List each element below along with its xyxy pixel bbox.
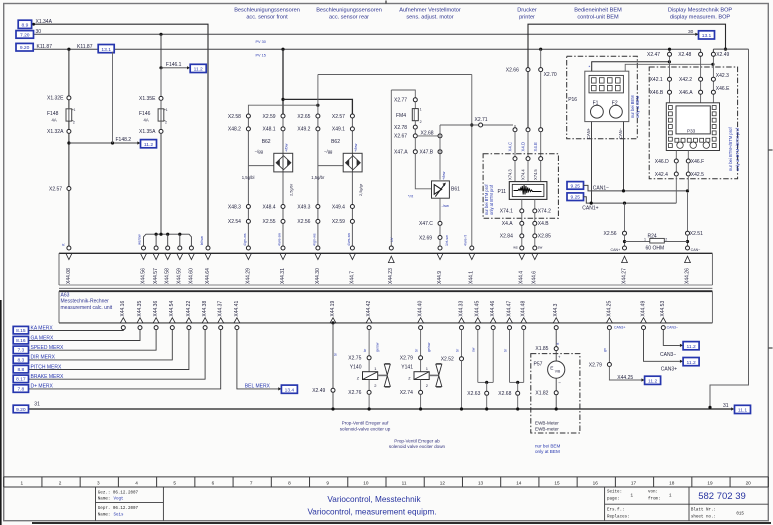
connector arrow X44.31: [280, 254, 286, 260]
svg-text:1,5g/bl: 1,5g/bl: [242, 175, 255, 180]
pin X74.4 pin: [526, 157, 530, 161]
pin X47.C: [438, 221, 442, 225]
svg-text:30: 30: [36, 29, 42, 35]
svg-text:X2.49: X2.49: [716, 52, 729, 58]
wire CAN3- wire: [663, 330, 680, 346]
svg-text:von:: von:: [648, 490, 658, 494]
pin X44.25 bottom: [607, 326, 611, 330]
display BOP dash-dot box: [649, 67, 737, 179]
sheet-ref box 9.20 left: [16, 43, 33, 51]
svg-text:20: 20: [746, 481, 752, 486]
svg-text:CAN+: CAN+: [611, 248, 621, 252]
wire X2.52 col a: [461, 330, 463, 357]
valve symbol Y141: [429, 374, 439, 376]
svg-text:−: −: [558, 381, 561, 386]
junction CAN1- BOP j: [686, 189, 689, 192]
wire CAN- wire: [623, 122, 625, 191]
pin X48.4: [281, 205, 285, 209]
wire F146 col e: [160, 133, 162, 234]
svg-text:X44.7: X44.7: [349, 271, 355, 284]
svg-text:X42.1: X42.1: [650, 77, 663, 83]
svg-text:13.1: 13.1: [702, 33, 712, 39]
wire X2.65 riser: [317, 75, 319, 115]
pin X44.37 bottom: [219, 326, 223, 330]
svg-text:CAN1−: CAN1−: [593, 186, 609, 192]
svg-text:X44.42: X44.42: [366, 301, 372, 317]
svg-text:CAN−: CAN−: [618, 127, 623, 139]
svg-text:X42.5: X42.5: [691, 172, 704, 178]
svg-text:control-unit BEM: control-unit BEM: [577, 15, 619, 21]
svg-text:sens. adjust. motor: sens. adjust. motor: [406, 15, 453, 21]
wire X4.E wire: [540, 132, 542, 157]
connector arrow X44.59: [177, 254, 183, 260]
svg-text:X74.5: X74.5: [533, 169, 538, 180]
svg-text:X2.69: X2.69: [419, 235, 432, 241]
svg-text:X44.19: X44.19: [330, 301, 336, 317]
connector arrow X44.33: [459, 318, 465, 323]
connector arrow X44.25: [607, 318, 613, 323]
signal wire KA MERX: [29, 330, 124, 331]
resistor R24: [650, 238, 665, 243]
junction meter gnd: [555, 407, 558, 410]
pin X42.3: [711, 77, 715, 81]
wire X2.49 drop: [712, 49, 714, 54]
acc sensor rear B62 body: [343, 153, 362, 172]
svg-text:X44.1: X44.1: [469, 271, 475, 284]
svg-text:X44.57: X44.57: [153, 268, 159, 284]
wire front supply: [282, 49, 284, 114]
svg-text:CAN3−: CAN3−: [660, 352, 676, 358]
pin X2.57 left: [67, 187, 71, 191]
svg-text:CAN+: CAN+: [586, 127, 591, 139]
sheet-ref box 8.3 box: [13, 356, 28, 364]
junction X2.52 gnd: [460, 407, 463, 410]
wire fm4 b: [414, 121, 416, 126]
svg-text:B62: B62: [262, 139, 271, 145]
signal wire SPEED MERX: [29, 330, 157, 351]
control unit P16 body: [585, 71, 629, 121]
signal wire BRAKE MERX: [29, 330, 206, 380]
solenoid valve Y140 coil: [363, 372, 378, 380]
wire X2.51 col: [687, 193, 689, 231]
wire BEM to X42.1 feed: [592, 62, 670, 71]
svg-text:X2.63: X2.63: [467, 391, 480, 397]
svg-text:X2.68: X2.68: [498, 391, 511, 397]
pin X44.53 bottom: [661, 326, 665, 330]
wire pair pairA: [477, 330, 479, 383]
pin X44.9 top: [438, 246, 442, 250]
pin X2.84: [520, 234, 524, 238]
pin X44.33 bottom: [460, 326, 464, 330]
svg-text:8: 8: [288, 481, 291, 486]
sheet-ref box 9.20 bottom: [13, 405, 28, 413]
arrow into 11.1: [731, 407, 734, 410]
svg-text:X46.A: X46.A: [679, 90, 693, 96]
svg-text:3: 3: [97, 481, 100, 486]
svg-text:4/gn-ws: 4/gn-ws: [313, 233, 317, 246]
svg-text:X47.C: X47.C: [419, 221, 433, 227]
svg-text:9.25: 9.25: [570, 183, 580, 189]
sheet-ref box 11.2 f148: [141, 140, 157, 148]
svg-text:sw: sw: [538, 245, 543, 249]
wire X74.5 wire: [540, 161, 542, 182]
svg-text:X44.25: X44.25: [606, 301, 612, 317]
sheet-ref box 11.2 f146: [190, 64, 206, 72]
signal wire DIR MERX: [29, 330, 173, 360]
acc sensor rear wires: [317, 116, 319, 246]
wire X2.85 wire: [534, 225, 536, 234]
pin X44.30 top: [316, 246, 320, 250]
pin X44.08 top: [67, 246, 71, 250]
svg-text:4/gn-ws: 4/gn-ws: [243, 233, 247, 246]
pin X44.31 top: [281, 246, 285, 250]
wire motor top bend: [391, 90, 415, 98]
svg-text:X44.33: X44.33: [458, 301, 464, 317]
svg-text:ge/sw: ge/sw: [376, 342, 380, 352]
svg-text:X2.67: X2.67: [394, 134, 407, 140]
connector arrow X44.60: [189, 254, 195, 260]
sheet-ref box 8.15 box: [13, 326, 28, 334]
pin X2.79: [419, 356, 423, 360]
sheet-ref box 11.1 box: [735, 405, 751, 413]
svg-text:Gepr. 06.12.2007: Gepr. 06.12.2007: [98, 507, 139, 511]
svg-text:X2.51: X2.51: [690, 231, 703, 237]
meter P57 body: [548, 361, 565, 378]
pin X48.1: [281, 127, 285, 131]
connector arrow X44.9: [437, 254, 443, 260]
wire meter wire a: [555, 351, 557, 362]
junction PV15 tap: [281, 48, 284, 51]
wire meter wire b: [555, 378, 557, 391]
svg-text:D+ MERX: D+ MERX: [31, 384, 54, 390]
svg-text:X42.3: X42.3: [716, 73, 729, 79]
svg-text:X44.54: X44.54: [169, 301, 175, 317]
wire X4.C wire: [514, 132, 516, 157]
pin X44.7 top: [350, 246, 354, 250]
pin X44.27 top: [623, 246, 627, 250]
svg-text:nur bei BTM+/BTM prof: nur bei BTM+/BTM prof: [728, 127, 733, 171]
svg-text:X46.F: X46.F: [691, 159, 704, 165]
svg-text:X2.75: X2.75: [348, 356, 361, 362]
junction CAN1+ term j: [623, 202, 626, 205]
junction comb j1: [155, 233, 158, 236]
wire B61 col d: [439, 239, 441, 246]
wire K11.87 rail: [34, 48, 701, 50]
junction X2.47 tap: [668, 48, 671, 51]
svg-text:X47.B: X47.B: [420, 150, 434, 156]
svg-text:X44.58: X44.58: [165, 268, 171, 284]
svg-text:K11.87: K11.87: [37, 44, 53, 50]
svg-text:X44.47: X44.47: [506, 301, 512, 317]
pin X2.59: [350, 219, 354, 223]
pin X2.67: [413, 134, 417, 138]
svg-text:13: 13: [478, 481, 484, 486]
svg-text:X1.35E: X1.35E: [139, 96, 156, 102]
junction F146.1 j: [159, 66, 162, 69]
pin X44.45 bottom: [476, 326, 480, 330]
svg-text:X42.4: X42.4: [655, 172, 668, 178]
svg-text:X46.D: X46.D: [655, 159, 669, 165]
connector arrow X44.19: [330, 318, 336, 323]
svg-text:PV 15: PV 15: [256, 53, 266, 57]
pin X44.57 top: [154, 246, 158, 250]
svg-text:2: 2: [420, 120, 422, 124]
svg-text:7.20: 7.20: [20, 32, 30, 38]
svg-text:X47.A: X47.A: [394, 150, 408, 156]
sheet-ref box 13.1 left: [98, 45, 114, 53]
pin X42.1: [668, 77, 672, 81]
printer P11 dash-dot box: [483, 154, 558, 218]
connector arrow X44.56: [141, 254, 147, 260]
pin X74.1: [520, 209, 524, 213]
pin X44.59 top: [178, 246, 182, 250]
pin X46.D: [674, 159, 678, 163]
svg-text:X44.36: X44.36: [153, 301, 159, 317]
svg-text:CAN3+: CAN3+: [614, 325, 625, 329]
wire comb w3: [179, 234, 181, 248]
pin X4.B: [533, 221, 537, 225]
svg-text:X49.2: X49.2: [297, 127, 310, 133]
svg-text:Drucker: Drucker: [517, 8, 537, 14]
pin X2.51: [686, 231, 690, 235]
junction comb feed: [159, 233, 162, 236]
svg-text:X48.2: X48.2: [228, 127, 241, 133]
svg-text:−/gg: −/gg: [255, 149, 264, 154]
wire X2.70 col a: [540, 49, 542, 67]
svg-text:4/ws-sw: 4/ws-sw: [347, 233, 351, 246]
svg-text:measurement calc. unit: measurement calc. unit: [61, 305, 113, 311]
svg-text:−/gg: −/gg: [324, 149, 333, 154]
pin X2.68: [516, 391, 520, 395]
svg-text:X2.49: X2.49: [312, 388, 325, 394]
solenoid valve Y141 coil: [414, 372, 429, 380]
svg-text:8.15: 8.15: [16, 328, 26, 334]
junction X2.70 tap: [539, 48, 542, 51]
signal wire PITCH MERX: [29, 330, 189, 370]
svg-text:A63: A63: [61, 292, 70, 298]
arrow into 11.2 can3p: [680, 360, 683, 363]
svg-text:ge/sw: ge/sw: [427, 342, 431, 352]
wire gnd drop b: [332, 392, 334, 409]
wire X2.67-X2.68 link: [417, 135, 438, 137]
pin X1.85: [554, 347, 558, 351]
wire B61 col b: [439, 198, 441, 221]
P16 display segments: [592, 78, 597, 83]
BEM button F1: [591, 105, 604, 118]
svg-text:CAN3−: CAN3−: [667, 325, 678, 329]
pin X1.35E: [159, 96, 163, 100]
svg-text:10: 10: [363, 481, 369, 486]
svg-text:X2.85: X2.85: [538, 234, 551, 240]
sheet-ref box 11.2 can3m: [683, 342, 699, 350]
svg-text:X44.3: X44.3: [553, 303, 559, 316]
pin X44.54 bottom: [170, 326, 174, 330]
signal wire GA MERX: [29, 330, 141, 341]
connector arrow X44.29: [246, 254, 252, 260]
svg-text:bl/sw: bl/sw: [199, 236, 204, 245]
svg-text:X44.46: X44.46: [490, 301, 496, 317]
wire tie to X44.1 col: [318, 74, 472, 76]
pin X2.49b: [331, 388, 335, 392]
svg-text:18: 18: [669, 481, 675, 486]
svg-text:-/sw: -/sw: [442, 203, 449, 208]
connector arrow X44.47: [507, 318, 513, 323]
svg-text:Messtechnik-Rechner: Messtechnik-Rechner: [61, 299, 110, 305]
acc sensor front B62 body: [274, 153, 293, 172]
pin X44.16 bottom: [121, 326, 125, 330]
arrow into 11.2 f1482: [137, 141, 140, 144]
pin X74.3 pin: [513, 157, 517, 161]
sheet-ref box 11.2 can3p: [683, 358, 699, 366]
svg-text:X44.37: X44.37: [218, 301, 224, 317]
sheet-ref box 7.3 box: [13, 346, 28, 354]
svg-text:X49.4: X49.4: [332, 204, 345, 210]
wire motor l a: [414, 129, 416, 134]
wire drop to X2.48: [700, 49, 702, 54]
svg-text:1: 1: [74, 108, 76, 112]
pin X2.71 pin: [479, 123, 483, 127]
svg-text:BRAKE MERX: BRAKE MERX: [31, 374, 64, 380]
junction F146 tap: [159, 33, 162, 36]
svg-text:X1.82: X1.82: [535, 390, 548, 396]
svg-text:11: 11: [402, 481, 407, 486]
wire CAN1- bus: [584, 185, 688, 191]
pin X44.47 bottom: [508, 326, 512, 330]
pin X44.56 top: [142, 246, 146, 250]
svg-text:6: 6: [212, 481, 215, 486]
svg-text:EWB-Meter: EWB-Meter: [535, 421, 559, 426]
wire pair pairB: [509, 330, 511, 383]
junction X42.1 feed j: [668, 60, 671, 63]
svg-text:+/bw: +/bw: [283, 143, 288, 152]
svg-text:LV: LV: [389, 237, 394, 242]
junction rear left j: [316, 104, 319, 107]
svg-text:only at BEM: only at BEM: [635, 95, 640, 118]
wire X2.84 wire b: [521, 238, 523, 246]
pin X48.2: [246, 127, 250, 131]
svg-text:X4.A: X4.A: [502, 221, 514, 227]
svg-text:X44.59: X44.59: [177, 268, 183, 284]
pin X2.54: [246, 219, 250, 223]
svg-text:X1.85: X1.85: [535, 346, 548, 352]
svg-text:31: 31: [723, 403, 729, 409]
wire X2.56 col b: [624, 235, 626, 249]
BEM button F2: [610, 105, 623, 118]
pin X49.2: [316, 127, 320, 131]
pin X2.74: [419, 390, 423, 394]
svg-text:X74.1: X74.1: [500, 209, 513, 215]
svg-text:PITCH MERX: PITCH MERX: [31, 364, 63, 370]
wire X2.79 col a: [608, 330, 610, 363]
svg-text:X2.84: X2.84: [500, 234, 513, 240]
svg-text:13.1: 13.1: [101, 47, 111, 53]
svg-text:X44.30: X44.30: [315, 268, 321, 284]
wire X2.51 col b: [687, 235, 689, 249]
svg-text:Name:: Name:: [98, 513, 111, 517]
wire F148 col e: [68, 190, 70, 245]
pin X2.55: [281, 219, 285, 223]
junction F148.2 j2: [111, 141, 114, 144]
pin X2.58: [246, 114, 250, 118]
svg-text:X44.49: X44.49: [640, 301, 646, 317]
svg-text:ws: ws: [513, 245, 518, 249]
svg-text:Beschleunigungssensoren: Beschleunigungssensoren: [316, 8, 382, 14]
svg-text:X44.41: X44.41: [234, 301, 240, 317]
wire BEM to X42.3 feed: [625, 64, 713, 71]
connector arrow X44.64: [205, 254, 211, 260]
pin X2.77: [413, 98, 417, 102]
wire X42.5 down: [687, 176, 689, 191]
pin X44.48 bottom: [522, 326, 526, 330]
svg-text:Prop-Ventil Erreger ab: Prop-Ventil Erreger ab: [394, 438, 440, 443]
pin X44.1 top: [470, 246, 474, 250]
BOP column X2.49: [712, 56, 714, 103]
pin X2.63: [485, 391, 489, 395]
junction X2.71 j: [470, 123, 473, 126]
wire motor l b: [414, 138, 416, 150]
svg-text:E: E: [550, 365, 553, 371]
svg-text:X44.23: X44.23: [388, 268, 394, 284]
wire X74.3 wire: [514, 161, 516, 182]
pin X44.64 top: [206, 246, 210, 250]
junction R24 j2: [686, 240, 689, 243]
pin X44.40 bottom: [419, 326, 423, 330]
pin X44.22 bottom: [187, 326, 191, 330]
pin X44.49 bottom: [642, 326, 646, 330]
svg-text:printer: printer: [519, 15, 535, 21]
pin X2.48: [699, 52, 703, 56]
wire CAN1+ bus: [584, 197, 677, 203]
pin X1.32A: [67, 129, 71, 133]
sheet-ref box 13.1 top right: [699, 31, 715, 39]
printer P11 body: [509, 182, 547, 200]
wire meter wire c: [555, 395, 557, 409]
wire comb: [144, 234, 192, 248]
wire right drop: [710, 49, 749, 407]
svg-text:7.8: 7.8: [17, 386, 24, 392]
svg-text:solenoid valve exciter down: solenoid valve exciter down: [389, 444, 446, 449]
svg-text:B61: B61: [451, 187, 460, 193]
junction X2.49 junction: [724, 48, 727, 51]
svg-text:only at BEM: only at BEM: [535, 449, 560, 454]
wire F148 col a: [68, 49, 70, 96]
svg-text:8.8: 8.8: [17, 367, 24, 373]
svg-text:X1.34A: X1.34A: [36, 19, 53, 25]
svg-text:X44.35: X44.35: [137, 301, 143, 317]
svg-text:X44.38: X44.38: [202, 301, 208, 317]
bottom ruler strip: [4, 476, 769, 478]
wire X2.66 top route: [528, 24, 726, 69]
wire rear supply: [283, 99, 352, 114]
sheet-ref box 8.8 box: [13, 365, 28, 373]
connector arrow X44.42: [366, 318, 372, 323]
connector arrow X44.49: [641, 318, 647, 323]
svg-text:X1.32A: X1.32A: [47, 129, 64, 135]
svg-text:X46.E: X46.E: [716, 86, 730, 92]
title block: [95, 487, 97, 521]
pin X2.56: [623, 231, 627, 235]
arrow into 13.1: [695, 33, 698, 36]
svg-text:X1.35A: X1.35A: [139, 129, 156, 135]
sheet-ref box 7.8 box: [13, 385, 28, 393]
svg-text:P33: P33: [687, 129, 696, 134]
pin X2.69: [438, 236, 442, 240]
svg-text:X2.70: X2.70: [544, 72, 557, 78]
sheet-ref box 7.20: [16, 31, 34, 39]
svg-text:X48.1: X48.1: [263, 127, 276, 133]
pin X4.D entry: [526, 128, 530, 132]
svg-text:page:: page:: [607, 497, 620, 501]
